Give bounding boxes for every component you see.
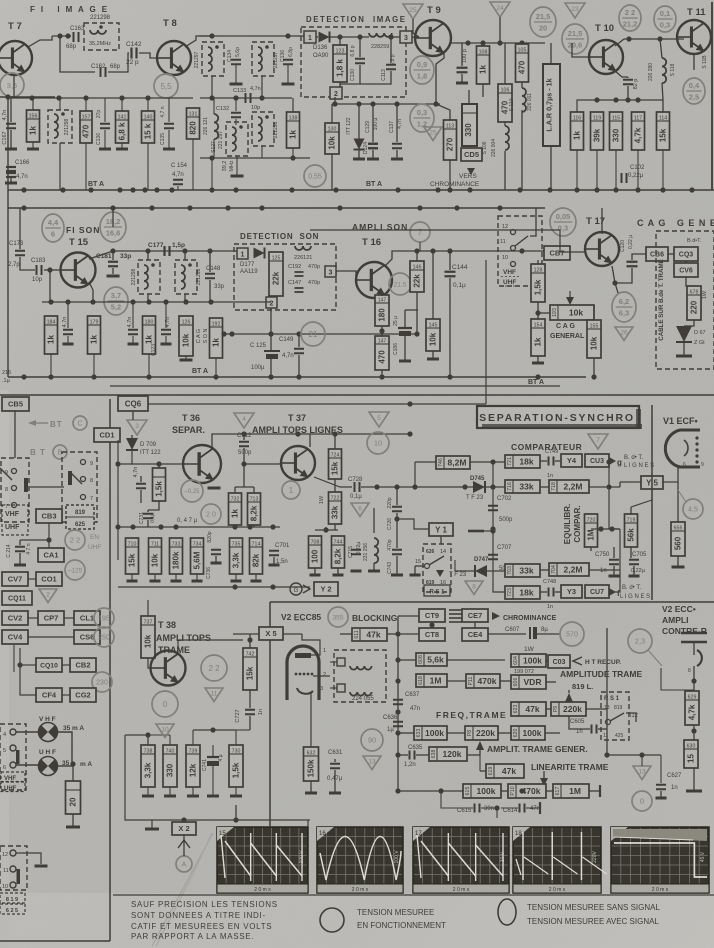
wire	[398, 615, 419, 617]
wire	[416, 292, 418, 334]
svg-text:470: 470	[518, 60, 527, 74]
wire	[193, 729, 236, 731]
svg-text:3: 3	[404, 35, 408, 42]
svg-text:C144: C144	[452, 264, 468, 271]
resistor 125 22k	[269, 252, 283, 296]
svg-text:1W: 1W	[702, 290, 708, 299]
wire	[315, 529, 338, 531]
svg-text:16: 16	[319, 831, 326, 837]
wire	[19, 553, 21, 565]
wire	[481, 807, 497, 809]
test point triangle 2	[39, 589, 57, 603]
svg-text:230: 230	[96, 680, 108, 687]
resistor 714 82k	[250, 538, 263, 574]
svg-text:355: 355	[333, 614, 344, 621]
wire	[662, 100, 664, 112]
voltage oval 3,7/5,2	[104, 287, 128, 315]
wire T37 emitter out	[314, 477, 352, 487]
wire cathode down	[310, 692, 312, 747]
wire	[215, 556, 217, 562]
svg-text:732: 732	[231, 497, 240, 503]
voltage oval 0,9/1,8	[410, 56, 434, 84]
junction dots mid rail	[21, 205, 502, 210]
svg-text:D747: D747	[474, 557, 489, 563]
title SEPARATION-SYNCHRO	[477, 406, 639, 428]
wire	[546, 660, 548, 662]
wire	[686, 277, 694, 286]
node square 1 son	[237, 248, 248, 259]
wire left rail blocking	[397, 616, 399, 791]
dashed box coil C	[226, 122, 248, 156]
svg-text:656: 656	[674, 526, 683, 532]
svg-text:2 0: 2 0	[206, 512, 216, 519]
ground top	[145, 828, 159, 831]
svg-text:C637: C637	[405, 692, 420, 698]
wire	[485, 486, 505, 488]
dashed box coil 221298 son A	[138, 260, 160, 294]
svg-text:4,7n: 4,7n	[282, 353, 294, 359]
resistor 330	[462, 104, 477, 146]
svg-text:226 280: 226 280	[648, 63, 654, 81]
connector box CL1	[74, 611, 100, 625]
capacitor C607	[529, 627, 531, 639]
svg-text:BT: BT	[50, 420, 63, 429]
dashed box CABLE SUR BdeT TRAME	[656, 231, 714, 369]
wire	[253, 487, 255, 493]
tube ECC85 envelope	[287, 646, 319, 700]
capacitor C715	[351, 550, 361, 555]
transistor T9	[415, 20, 451, 56]
dashed box coil 221298 son B	[175, 260, 197, 294]
svg-text:C A G: C A G	[556, 323, 575, 330]
ground C129	[367, 158, 379, 161]
wire T8 collector top	[185, 36, 212, 47]
svg-text:CQ10: CQ10	[40, 662, 58, 669]
wire	[211, 158, 213, 190]
connector box CQ3	[674, 247, 698, 261]
voltage oval 6,2/6,3	[612, 292, 636, 322]
capacitor C133	[246, 93, 251, 103]
wire Y5 to V1	[663, 481, 678, 483]
svg-text:21,5: 21,5	[536, 12, 551, 21]
svg-text:22 p: 22 p	[126, 59, 139, 66]
wire to T9	[412, 36, 419, 38]
resistor 141 6,8 k	[116, 111, 129, 143]
diode D747	[475, 565, 487, 577]
transistor T38	[151, 651, 186, 686]
svg-text:S 110: S 110	[509, 98, 515, 111]
svg-text:0: 0	[163, 700, 168, 709]
resistor 630 15	[684, 740, 698, 768]
wire	[298, 334, 300, 347]
wire	[196, 574, 198, 580]
transistor T36	[183, 445, 221, 483]
svg-text:C130: C130	[350, 69, 356, 81]
junction dots	[598, 526, 614, 531]
wire anode up	[302, 634, 320, 655]
wire	[387, 633, 398, 635]
svg-text:6 2 5: 6 2 5	[6, 908, 18, 914]
capacitor C120	[627, 262, 638, 267]
svg-text:CATIF ET MESUREES EN VOLTS: CATIF ET MESUREES EN VOLTS	[131, 922, 272, 931]
svg-text:C701: C701	[275, 543, 290, 549]
wire	[641, 755, 643, 766]
transistor T11	[677, 20, 711, 54]
svg-text:5,2: 5,2	[111, 303, 121, 312]
circle 22b	[201, 655, 227, 681]
svg-text:12: 12	[2, 852, 8, 858]
wire	[482, 43, 484, 46]
junction dots	[209, 155, 295, 160]
wire	[49, 270, 51, 302]
svg-text:470: 470	[378, 350, 387, 364]
arrow X2	[178, 840, 190, 848]
svg-text:184: 184	[47, 320, 56, 326]
svg-text:B. d• T.: B. d• T.	[624, 455, 643, 461]
wire	[496, 808, 498, 818]
svg-text:Y3: Y3	[567, 587, 576, 596]
svg-text:734: 734	[193, 542, 202, 548]
svg-text:1k: 1k	[90, 335, 99, 344]
resistor 157 470	[80, 111, 92, 143]
wire	[185, 356, 187, 360]
resistor LAR 0,7µs-1k	[543, 64, 560, 146]
capacitor C130	[355, 59, 365, 64]
wire	[391, 36, 400, 38]
svg-text:m A: m A	[80, 761, 92, 768]
svg-text:33p: 33p	[214, 284, 225, 290]
svg-text:T 10: T 10	[595, 23, 614, 34]
svg-text:CV6: CV6	[679, 268, 693, 275]
svg-text:12: 12	[502, 224, 508, 230]
coil L 35,2MHz	[90, 30, 106, 34]
arrow up P8	[476, 741, 484, 750]
transistor T16	[356, 262, 392, 298]
svg-text:CF4: CF4	[42, 691, 57, 700]
svg-text:4,5: 4,5	[688, 507, 698, 514]
node square 2 son	[266, 297, 277, 308]
svg-text:B.d•T.: B.d•T.	[687, 238, 702, 244]
svg-text:C123: C123	[151, 344, 157, 356]
svg-text:25: 25	[429, 129, 437, 136]
svg-text:226121: 226121	[294, 255, 312, 261]
resistor 730 1,5k	[229, 745, 243, 787]
wire	[521, 82, 523, 88]
junction dots	[414, 248, 524, 253]
svg-text:2 2: 2 2	[625, 8, 635, 17]
voltage oval 0,4/2,5	[683, 78, 705, 104]
circle 0	[632, 791, 652, 811]
svg-text:CG2: CG2	[75, 691, 90, 700]
svg-text:10k: 10k	[590, 336, 599, 350]
wire	[677, 556, 679, 566]
svg-text:CONTRE-R: CONTRE-R	[662, 626, 707, 636]
wire node row	[200, 97, 292, 99]
svg-text:15: 15	[415, 559, 421, 565]
svg-text:C137: C137	[389, 121, 395, 133]
svg-text:CQ3: CQ3	[679, 252, 694, 259]
svg-text:0,22µ: 0,22µ	[356, 542, 362, 555]
svg-text:737: 737	[144, 620, 153, 626]
resistor 629 4,7k	[685, 691, 699, 725]
dashed box coil D	[252, 112, 274, 146]
svg-text:C149: C149	[279, 337, 294, 343]
wire	[405, 309, 418, 311]
resistor 732 1k	[229, 493, 242, 525]
circle D	[152, 691, 178, 717]
svg-text:CA1: CA1	[43, 551, 58, 560]
svg-text:15 k: 15 k	[144, 123, 153, 139]
junction dots	[46, 537, 51, 542]
wire	[609, 487, 620, 529]
legend oval	[498, 899, 516, 925]
coil	[54, 114, 58, 138]
node square 3 son	[325, 266, 336, 277]
junction dots rail y98	[29, 95, 150, 100]
capacitor C167	[6, 124, 16, 129]
svg-text:3,5: 3,5	[7, 81, 17, 90]
dashed box coil A	[202, 42, 224, 76]
svg-text:BT A: BT A	[366, 181, 382, 188]
wire	[662, 150, 664, 190]
svg-text:5,6p: 5,6p	[235, 47, 241, 57]
resistor 719 56k	[625, 514, 638, 547]
svg-text:COMPAR.: COMPAR.	[573, 505, 582, 542]
svg-text:22k: 22k	[272, 271, 281, 285]
svg-text:141: 141	[118, 115, 127, 121]
svg-text:221298: 221298	[64, 118, 70, 135]
svg-text:6,8 k: 6,8 k	[118, 122, 127, 140]
wire	[243, 448, 245, 464]
junction dots	[606, 459, 611, 464]
wire	[546, 708, 551, 710]
resistor 742 15k	[243, 648, 257, 690]
voltage oval 18,2/16,6	[100, 212, 126, 242]
svg-text:OA90: OA90	[313, 53, 329, 59]
wire T37 base	[244, 463, 281, 465]
svg-text:18k: 18k	[519, 457, 533, 467]
resistor 704 2,2M	[549, 563, 589, 576]
label BT arrow	[28, 420, 36, 426]
wire T38 bottom	[125, 735, 310, 820]
svg-text:744: 744	[334, 540, 343, 546]
svg-text:33k: 33k	[519, 482, 533, 492]
wire	[147, 600, 149, 616]
resistor 114 15k	[657, 112, 670, 150]
svg-text:11: 11	[500, 239, 506, 245]
svg-text:617: 617	[555, 787, 561, 796]
voltage circle 21,5	[389, 273, 411, 295]
svg-text:615: 615	[465, 787, 471, 796]
wire	[537, 356, 539, 362]
wire	[184, 251, 186, 260]
svg-text:H T RECUP.: H T RECUP.	[585, 659, 621, 666]
dashed box tuner plug	[0, 724, 26, 790]
circle B	[53, 445, 67, 459]
arrow g	[609, 457, 616, 465]
svg-text:1W: 1W	[524, 646, 535, 653]
svg-text:C113: C113	[381, 69, 387, 81]
svg-text:220k: 220k	[563, 704, 582, 714]
circle 90	[361, 729, 383, 751]
wire	[449, 278, 451, 377]
svg-text:MHz: MHz	[229, 160, 235, 172]
wire	[627, 86, 629, 100]
svg-text:C192: C192	[288, 264, 301, 270]
capacitor C728	[355, 482, 360, 492]
wire T10-T11	[624, 38, 684, 40]
wire T10 top	[615, 39, 624, 46]
transistor T10	[589, 40, 623, 74]
capacitor C743	[392, 550, 402, 555]
capacitor C166a	[6, 167, 16, 171]
resistor 724 15k	[329, 449, 342, 479]
coil	[258, 47, 262, 71]
svg-text:CABLE SUR B.de T. TRAME: CABLE SUR B.de T. TRAME	[658, 259, 665, 340]
svg-text:470k: 470k	[478, 676, 497, 686]
capacitor C177	[165, 246, 170, 256]
junction dots	[612, 280, 617, 285]
dashed box tuner terminals	[0, 846, 27, 890]
svg-text:82k: 82k	[252, 553, 261, 567]
wire to C162	[60, 36, 95, 72]
resistor 154 1k	[531, 319, 545, 356]
svg-text:2,2M: 2,2M	[564, 565, 583, 575]
label VHF UHF dashed	[2, 505, 28, 535]
svg-text:8: 8	[90, 478, 93, 484]
wire	[626, 713, 636, 722]
wire	[381, 326, 383, 336]
svg-text:15k: 15k	[246, 666, 255, 680]
svg-text:.1µ: .1µ	[2, 378, 11, 384]
coil	[662, 58, 666, 83]
svg-text:C631: C631	[328, 750, 343, 756]
wire	[449, 160, 451, 190]
svg-text:11: 11	[211, 690, 218, 697]
resistor 117 4,7k	[632, 112, 645, 150]
resistor 130 10k	[325, 123, 339, 154]
svg-text:735: 735	[232, 542, 241, 548]
svg-text:16,6: 16,6	[106, 229, 121, 238]
capacitor 4,7n T36	[136, 484, 146, 489]
connector box CF4	[36, 688, 62, 702]
transistor T8	[157, 41, 191, 75]
wire	[340, 633, 352, 635]
wire	[660, 39, 662, 58]
svg-text:10: 10	[161, 726, 169, 733]
wire	[192, 787, 194, 795]
connector box X5	[259, 627, 283, 640]
wire	[608, 462, 610, 487]
junction dots	[490, 459, 495, 464]
wire	[546, 681, 556, 683]
wire	[596, 150, 598, 190]
svg-text:100k: 100k	[477, 786, 496, 796]
wire	[292, 148, 294, 158]
wire	[168, 130, 170, 148]
wire to comparator	[361, 486, 474, 488]
svg-text:2: 2	[270, 300, 274, 307]
wire	[404, 310, 406, 328]
resistor 615 100k	[463, 784, 501, 798]
lamp VHF	[39, 723, 58, 742]
coil 226121	[295, 246, 311, 250]
svg-text:6: 6	[683, 462, 686, 468]
resistor 633 100k	[414, 726, 447, 740]
wire	[390, 37, 392, 63]
svg-text:1M: 1M	[569, 786, 581, 796]
junction dots	[606, 484, 611, 489]
junction dots	[394, 516, 399, 521]
svg-text:21,5: 21,5	[568, 29, 583, 38]
wire	[396, 104, 398, 142]
svg-text:606: 606	[513, 678, 519, 687]
svg-text:15k: 15k	[331, 461, 340, 475]
svg-text:SONT DONNEES A TITRE INDI-: SONT DONNEES A TITRE INDI-	[131, 911, 266, 920]
wire	[131, 435, 133, 439]
connector box CB5	[2, 397, 29, 411]
svg-text:5,6M: 5,6M	[193, 551, 202, 569]
wire	[148, 354, 150, 377]
capacitor 100p	[457, 68, 468, 73]
svg-text:47n: 47n	[410, 706, 420, 712]
svg-text:4,7k: 4,7k	[634, 127, 643, 143]
wire	[10, 178, 12, 182]
wire	[212, 745, 214, 757]
svg-text:716: 716	[507, 482, 513, 491]
wire	[372, 150, 374, 158]
wire	[474, 622, 476, 628]
svg-text:Y 2: Y 2	[320, 585, 331, 594]
resistor 722 33k	[329, 492, 342, 524]
wire CB3 down	[48, 523, 50, 548]
junction dots	[332, 431, 337, 436]
ground C627	[656, 797, 667, 800]
wire	[555, 591, 560, 593]
wire	[662, 83, 663, 100]
svg-text:1n: 1n	[671, 785, 678, 791]
tube cathode 3	[297, 688, 313, 694]
wire	[261, 146, 263, 158]
wire	[112, 208, 114, 227]
ground	[171, 580, 182, 583]
svg-text:4,7k: 4,7k	[688, 704, 697, 720]
dashed box coil 221298b	[48, 110, 72, 143]
svg-text:126: 126	[182, 320, 191, 326]
wire	[493, 571, 505, 592]
svg-text:C173: C173	[9, 241, 24, 247]
svg-text:9: 9	[701, 462, 704, 468]
wire	[431, 622, 433, 628]
node square 3	[400, 31, 412, 43]
connector box CE4	[462, 628, 488, 641]
svg-text:10p: 10p	[32, 277, 43, 283]
wire	[404, 336, 406, 360]
wire	[398, 790, 463, 792]
capacitor C750	[609, 560, 619, 565]
svg-text:15: 15	[687, 754, 696, 763]
resistor 138 1k	[287, 112, 300, 148]
wire	[449, 251, 451, 270]
voltage oval 0,05/0,3	[550, 208, 576, 236]
ground 126	[180, 359, 193, 362]
svg-text:0,1µ: 0,1µ	[453, 282, 466, 289]
capacitor CD5	[466, 153, 475, 157]
wire	[619, 482, 621, 487]
tube V1 dots	[695, 436, 698, 439]
diode D709	[126, 438, 138, 450]
connector box CS6	[74, 630, 100, 644]
